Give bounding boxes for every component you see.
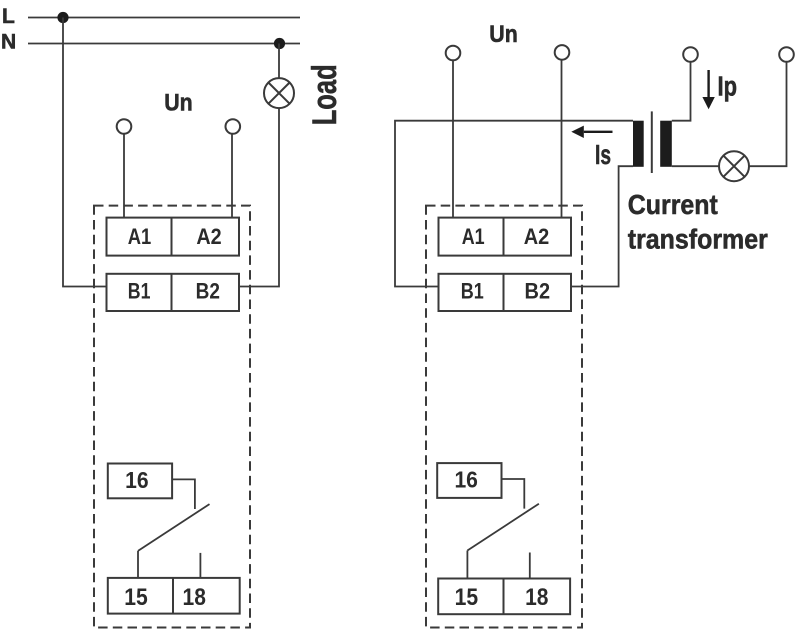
svg-text:A1: A1 [462,224,485,249]
junction dot on L [57,12,68,23]
wire from L junction down and right to B1 [63,18,107,287]
svg-text:Current: Current [628,189,718,220]
svg-text:B1: B1 [461,278,484,303]
terminal block B1 B2 (right) [439,274,572,311]
terminal block 15 18 (right) [438,579,570,615]
terminal circle 1 (left Un +) [117,119,132,134]
wire terminal 1 to A1 [123,134,125,218]
wire from N junction down to lamp [278,44,280,79]
terminal circle 3 (right Un +) [446,46,461,61]
arrow Is [571,126,612,138]
wire L line [28,17,300,19]
relay device dashed outline (left) [94,206,250,628]
wire terminal 4 to A2 [561,60,563,218]
wire terminal 5 down to transformer primary [672,62,691,121]
relay contact blade (right) [467,504,539,551]
svg-text:Load: Load [306,64,344,125]
relay device dashed outline (right) [426,206,582,628]
terminal box 16 (left) [108,464,172,499]
svg-text:15: 15 [455,584,479,611]
divider B1/B2 (right) [503,274,505,311]
terminal box 16 (right) [437,463,501,498]
current transformer T1 secondary bar [633,121,644,167]
wire lamp to terminal 6 [749,62,787,166]
terminal block A1 A2 (right) [439,218,572,256]
svg-text:L: L [2,5,15,28]
terminal circle 4 (right Un -) [555,45,570,60]
svg-text:18: 18 [183,584,206,611]
wire secondary bottom to B2 [571,166,633,286]
terminal block A1 A2 (left) [107,218,240,256]
wire stub 18 (right) [529,553,531,579]
lamp E1 (Load) [264,78,294,108]
svg-text:B2: B2 [196,278,220,303]
divider 15/18 (left) [172,578,174,614]
wire terminal 2 to A2 [231,134,233,218]
divider A1/A2 (left) [171,218,173,256]
svg-text:A1: A1 [128,224,152,249]
wire contact to 15 (left) [137,551,139,578]
terminal block 15 18 (left) [108,578,240,614]
divider A1/A2 (right) [503,218,505,256]
terminal circle 5 (transformer primary in) [683,47,698,62]
junction dot on N [274,38,285,49]
wire from lamp down and left to B2 [239,108,279,286]
svg-text:18: 18 [525,584,548,611]
divider 15/18 (right) [503,579,505,615]
svg-text:Is: Is [595,139,611,170]
svg-text:Ip: Ip [718,71,738,102]
svg-text:B2: B2 [525,278,551,303]
svg-text:15: 15 [124,584,148,611]
wire primary bottom to lamp [672,165,719,167]
arrow Ip [702,70,714,109]
svg-text:transformer: transformer [628,223,768,254]
svg-text:16: 16 [125,467,149,493]
wire secondary top to B1 (long left wire) [395,121,633,287]
lamp E2 [719,151,749,181]
wire stub 18 (left) [199,553,201,578]
svg-text:N: N [1,31,16,54]
svg-text:A2: A2 [196,224,221,249]
divider B1/B2 (left) [171,274,173,311]
current transformer T1 primary bar [660,121,672,167]
terminal circle 6 (transformer primary out) [779,47,794,62]
wire terminal 3 to A1 [452,60,454,217]
svg-text:Un: Un [489,21,518,48]
wire N line [28,43,300,45]
svg-text:B1: B1 [128,278,151,303]
svg-text:16: 16 [454,467,478,493]
terminal block B1 B2 (left) [107,274,240,311]
wire 16 to contact (left) [172,479,195,509]
wire contact to 15 (right) [466,551,468,579]
wire 16 to contact (right) [502,479,525,509]
terminal circle 2 (left Un -) [226,119,241,134]
current transformer T1 core line [651,111,653,173]
svg-text:Un: Un [164,90,193,117]
relay contact blade (left) [138,504,210,551]
svg-text:A2: A2 [524,224,550,249]
